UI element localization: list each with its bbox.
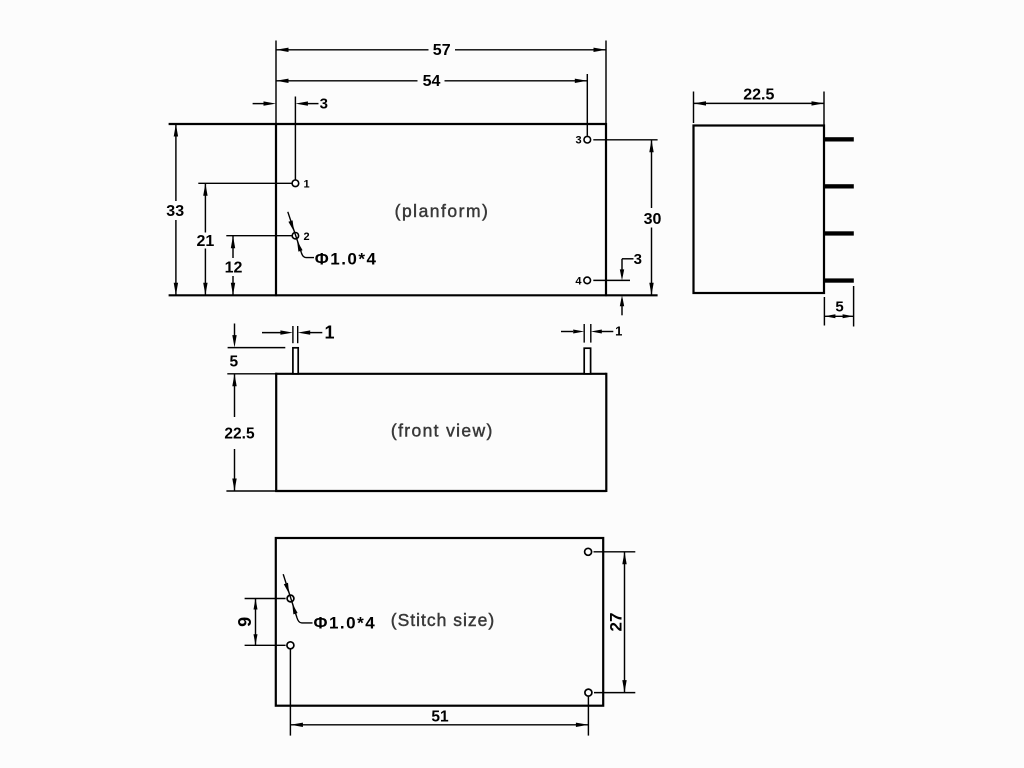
hole 4 extension line [593, 279, 630, 281]
dimension 22.5 line [694, 102, 825, 104]
dimension 30 line [651, 140, 653, 208]
dimension 1 right pin ticks [583, 324, 585, 343]
planform body outline top edge [169, 123, 606, 125]
dimension 9 extension lines [245, 598, 286, 600]
planform body outline bottom edge [169, 294, 658, 296]
svg-text:3: 3 [320, 96, 328, 113]
svg-text:57: 57 [433, 42, 451, 59]
svg-text:Φ1.0*4: Φ1.0*4 [314, 614, 377, 633]
svg-text:(Stitch size): (Stitch size) [391, 610, 495, 630]
hole 2 leader line [288, 212, 302, 253]
svg-text:3: 3 [576, 135, 582, 147]
svg-text:27: 27 [606, 613, 625, 632]
dimension 27 extension lines [594, 551, 636, 553]
svg-text:54: 54 [423, 73, 441, 90]
svg-text:1: 1 [615, 324, 622, 339]
dimension 12 line [232, 236, 234, 258]
pin 1 side view [825, 137, 854, 141]
svg-text:22.5: 22.5 [743, 87, 774, 104]
svg-text:22.5: 22.5 [224, 426, 255, 443]
svg-text:21: 21 [197, 233, 215, 250]
svg-text:9: 9 [235, 617, 255, 627]
dimension 51 line [290, 724, 588, 726]
stitch hole lower-left [287, 642, 294, 649]
side view body outline [694, 126, 825, 294]
front view top edge [227, 373, 276, 375]
front view left pin [293, 348, 298, 374]
svg-text:1: 1 [303, 178, 309, 190]
dimension 5 side extension lines [823, 297, 825, 326]
extension line for 54 through hole 3 [586, 74, 588, 136]
dimension 1 right pin arrows [561, 331, 573, 333]
svg-text:(front view): (front view) [391, 421, 494, 441]
dimension 3 bottom-right lower arrow [621, 299, 623, 315]
pin 2 side view [825, 184, 854, 188]
dimension 22.5 front line [234, 374, 236, 417]
hole 2 [292, 233, 298, 239]
dimension 57 line [276, 49, 429, 51]
svg-text:51: 51 [431, 708, 449, 725]
svg-text:2: 2 [303, 231, 309, 243]
stitch outline [276, 538, 603, 706]
pin 4 side view [825, 278, 854, 282]
svg-text:(planform): (planform) [395, 201, 490, 221]
svg-text:Φ1.0*4: Φ1.0*4 [315, 249, 378, 268]
dimension 3 bottom-right leader [622, 258, 634, 260]
dimension 54 line [276, 80, 418, 82]
dimension 5 front arrow [234, 324, 236, 337]
svg-text:33: 33 [166, 203, 184, 220]
svg-text:4: 4 [575, 275, 582, 287]
pin top extension line [228, 347, 286, 349]
hole 3 [584, 136, 591, 143]
hole 2 extension line [226, 235, 291, 237]
dimension 51 extension lines [289, 650, 291, 736]
extension line above right edge [605, 41, 607, 125]
planform body outline right edge [605, 123, 607, 296]
front view right edge [605, 373, 607, 492]
stitch hole upper-right [585, 548, 592, 555]
svg-text:12: 12 [225, 260, 243, 277]
stitch hole lower-right [585, 689, 592, 696]
front view right pin [584, 348, 590, 374]
dimension 3 top-left arrows [253, 103, 264, 105]
svg-text:30: 30 [644, 211, 662, 228]
extension line above left edge [275, 41, 277, 125]
svg-text:5: 5 [835, 298, 843, 315]
dimension 27 line [624, 552, 626, 693]
dimension 9 line [255, 599, 257, 646]
stitch leader line [283, 574, 297, 617]
hole 1 extension line [198, 182, 291, 184]
stitch hole upper-left [287, 595, 294, 602]
planform body outline left edge [275, 123, 277, 296]
extension line for 3 through hole 1 [294, 97, 296, 180]
dimension 1 left pin arrows [262, 332, 281, 334]
pin 3 side view [825, 231, 854, 235]
dimension 33 line [175, 124, 177, 201]
front view bottom edge [226, 490, 276, 492]
front view left edge [275, 373, 277, 492]
svg-text:3: 3 [634, 251, 642, 268]
svg-text:5: 5 [229, 353, 238, 370]
dimension 21 line [204, 183, 206, 232]
svg-text:1: 1 [324, 323, 334, 343]
dimension 5 side line [824, 315, 853, 317]
hole 4 [584, 277, 591, 284]
hole 1 [292, 180, 299, 187]
dimension 1 left pin ticks [292, 326, 294, 343]
side view extension line left [693, 92, 695, 124]
hole 3 extension line [593, 139, 657, 141]
side view extension line right [823, 92, 825, 126]
